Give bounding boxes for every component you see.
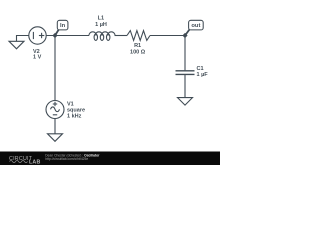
- svg-text:1 kHz: 1 kHz: [67, 114, 82, 120]
- svg-text:1 µF: 1 µF: [197, 72, 209, 78]
- svg-text:In: In: [60, 23, 66, 29]
- svg-text:1 V: 1 V: [33, 55, 42, 61]
- svg-text:C1: C1: [197, 66, 204, 72]
- svg-text:100 Ω: 100 Ω: [130, 50, 146, 56]
- svg-text:http://circuitlab.com/c/hb425e: http://circuitlab.com/c/hb425e: [45, 157, 88, 161]
- svg-text:L1: L1: [98, 15, 104, 21]
- svg-text:out: out: [191, 23, 200, 29]
- svg-text:1 µH: 1 µH: [95, 22, 107, 28]
- svg-text:square: square: [67, 107, 85, 113]
- svg-text:R1: R1: [134, 43, 141, 49]
- svg-text:LAB: LAB: [29, 160, 41, 166]
